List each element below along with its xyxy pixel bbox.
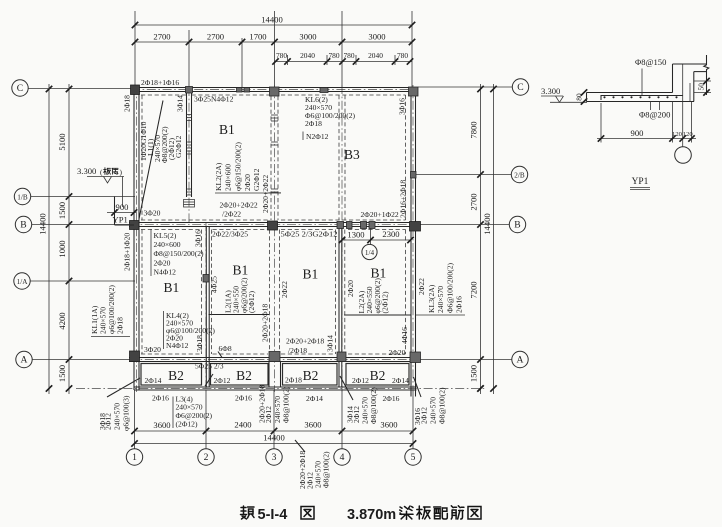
- svg-text:120: 120: [683, 131, 694, 138]
- grid bubble B left: [15, 216, 31, 232]
- svg-text:1500: 1500: [57, 365, 67, 382]
- bottom dimension line 3600/2400/3600/3600: [135, 430, 414, 432]
- svg-text:2Φ20+2Φ18: 2Φ20+2Φ18: [261, 304, 270, 342]
- svg-text:14400: 14400: [482, 213, 492, 234]
- dimension line row 2: 2700 2700 1700 3000 3000: [135, 41, 412, 43]
- svg-text:2Φ18+1Φ20: 2Φ18+1Φ20: [123, 233, 132, 271]
- dimension line 14400 (top row 1): [135, 24, 412, 26]
- dashed slab edges flanking grid 4 lower: [335, 230, 337, 355]
- grid line B connector right: [421, 224, 510, 226]
- dimension 1300 at B: [341, 231, 343, 243]
- beam L-2 along grid 2 vertical (B to bottom): [205, 227, 207, 388]
- dimension line row 3: 780 2040 780 780 2040 780: [275, 61, 413, 63]
- beam note KL5(2): [150, 229, 152, 276]
- bottom extension line grid 4: [341, 390, 343, 449]
- leader near grid 3 bottom note: [295, 440, 305, 452]
- leader to 2-14 slab bar (bottom left): [107, 378, 140, 397]
- svg-text:G2Φ12: G2Φ12: [252, 168, 261, 191]
- right inner dimension line (7800/2700/7200/1500): [480, 84, 482, 394]
- svg-text:240×600: 240×600: [224, 164, 233, 191]
- svg-text:780: 780: [343, 51, 354, 60]
- beam end detail box of L1(1): [184, 200, 195, 208]
- svg-text:2Φ16: 2Φ16: [152, 394, 169, 403]
- svg-text:2Φ16: 2Φ16: [235, 394, 252, 403]
- beam along grid 4 vertical (B to bottom): [338, 227, 340, 388]
- title fake glyph 图: [301, 507, 314, 520]
- centre line grid 1 vertical: [136, 85, 138, 392]
- svg-text:2: 2: [204, 452, 209, 463]
- svg-text:3Φ16: 3Φ16: [194, 230, 203, 247]
- svg-text:2700: 2700: [469, 193, 479, 210]
- centre line grid 2 vertical (lower): [205, 222, 207, 392]
- svg-text:2Φ12: 2Φ12: [214, 376, 231, 385]
- svg-text:1000: 1000: [57, 240, 67, 257]
- beam note KL4(2): [163, 311, 165, 349]
- detail distribution bars 8@200: [650, 102, 652, 111]
- svg-text:2Φ20+2Φ22: 2Φ20+2Φ22: [261, 175, 270, 213]
- svg-text:3600: 3600: [304, 420, 321, 430]
- svg-text:Φ8@100(2): Φ8@100(2): [438, 387, 447, 424]
- grid line C connector right: [418, 86, 512, 88]
- detail wall break line: [704, 55, 709, 95]
- centre line grid 4 vertical: [341, 85, 343, 392]
- grid line B connector left: [32, 224, 131, 226]
- svg-text:(: (: [100, 168, 103, 177]
- leader from level mark: [122, 177, 124, 208]
- svg-text:2Φ18: 2Φ18: [116, 317, 125, 334]
- svg-text:1/A: 1/A: [17, 278, 29, 286]
- svg-text:A: A: [21, 355, 28, 366]
- slab panel outline B2 bay 3-4: [283, 364, 338, 386]
- grid bubble 5 bottom: [405, 449, 421, 465]
- centre line grid A horizontal: [129, 359, 421, 361]
- title fake glyph 题: [241, 507, 246, 509]
- svg-text:3Φ25N4Φ12: 3Φ25N4Φ12: [194, 95, 234, 104]
- top dimension extension line grid 3: [274, 11, 276, 87]
- svg-text:B1: B1: [164, 280, 180, 295]
- column 1/A on grid 2: [203, 275, 209, 283]
- svg-text:Φ8@200: Φ8@200: [639, 110, 670, 120]
- post marks on beam B near grid 4: [337, 222, 344, 229]
- slab panel outline B2 bay 4-5: [346, 364, 409, 386]
- svg-text:B1: B1: [303, 267, 319, 282]
- svg-text:2Φ20: 2Φ20: [389, 348, 406, 357]
- stirrup marks on grid 3 strip: [271, 114, 278, 116]
- svg-text:1/B: 1/B: [17, 193, 28, 201]
- column C/3: [270, 87, 280, 96]
- svg-text:2700: 2700: [153, 32, 170, 42]
- leader at B2 bay3 to rebar note: [340, 376, 353, 400]
- svg-text:2Φ16+2Φ18: 2Φ16+2Φ18: [399, 180, 408, 218]
- svg-text:2Φ20+2Φ22: 2Φ20+2Φ22: [220, 201, 258, 210]
- beam KL5/KL... along grid B: [129, 222, 421, 224]
- beam at grid 3 in B2 strip: [268, 362, 270, 388]
- svg-text:B1: B1: [233, 263, 249, 278]
- column A/5: [410, 352, 421, 363]
- centre line bottom edge horizontal: [76, 388, 485, 390]
- grid bubble C left: [12, 80, 28, 96]
- grid bubble 1/A left: [14, 273, 30, 289]
- svg-text:2Φ12: 2Φ12: [264, 406, 273, 423]
- dashed slab edge right of grid 1: [141, 95, 143, 220]
- svg-text:Φ8@100(2): Φ8@100(2): [369, 387, 378, 424]
- svg-text:900: 900: [631, 128, 644, 138]
- svg-text:N4Φ12: N4Φ12: [154, 268, 177, 277]
- beam KL3 along grid 5 vertical: [410, 88, 412, 397]
- svg-text:3600: 3600: [153, 420, 170, 430]
- svg-text:YP1: YP1: [113, 215, 128, 225]
- title fake glyph 图2: [468, 507, 481, 520]
- detail dimension line 900/120/120: [600, 103, 602, 143]
- svg-text:(2Φ12): (2Φ12): [247, 291, 256, 313]
- svg-text:A: A: [517, 355, 524, 366]
- beam L1(1) vertical at x=189: [186, 92, 188, 198]
- grid line 1/B: [31, 196, 135, 198]
- grid bubble A left: [16, 351, 32, 367]
- beam L2(1A) horizontal: [209, 314, 270, 316]
- svg-text:Φ8@100(2): Φ8@100(2): [322, 451, 331, 488]
- svg-text:/2Φ22: /2Φ22: [222, 210, 241, 219]
- svg-text:1500: 1500: [57, 202, 67, 219]
- left outer dimension line (14400): [48, 84, 50, 394]
- svg-text:3000: 3000: [368, 32, 385, 42]
- svg-text:1/4: 1/4: [365, 249, 375, 257]
- detail slab left edge: [586, 93, 588, 102]
- svg-text:C: C: [17, 83, 23, 94]
- svg-text:5-I-4: 5-I-4: [258, 507, 288, 523]
- bottom extension line grid 1: [134, 390, 136, 449]
- grid bubble B right: [509, 216, 525, 232]
- svg-text:2Φ14: 2Φ14: [392, 376, 409, 385]
- right outer dimension line (14400): [493, 84, 495, 394]
- leader 6-8: [218, 352, 222, 358]
- svg-text:50: 50: [697, 83, 706, 91]
- dashed beam strip grid 4 upper: [338, 95, 340, 220]
- slab panel outline B2 bay 2-3: [211, 364, 269, 386]
- svg-text:2Φ18: 2Φ18: [285, 376, 302, 385]
- post mark on beam C at L1 top: [186, 87, 193, 94]
- svg-text:(2Φ12): (2Φ12): [381, 291, 390, 313]
- svg-text:2Φ20: 2Φ20: [243, 174, 252, 191]
- detail beam left face: [672, 64, 674, 93]
- svg-text:4Φ16: 4Φ16: [400, 327, 409, 344]
- svg-text:2Φ14: 2Φ14: [145, 376, 162, 385]
- svg-text:KL5(2): KL5(2): [154, 231, 177, 240]
- svg-text:Φ6@100/200(2): Φ6@100/200(2): [446, 262, 455, 313]
- title fake glyph 筋: [451, 506, 453, 508]
- stirrup marks on L1(1) beam: [187, 114, 192, 116]
- svg-text:3.870m: 3.870m: [347, 507, 396, 523]
- svg-text:N4Φ12: N4Φ12: [166, 341, 189, 350]
- bottom extension line grid 5: [412, 390, 414, 449]
- svg-text:14400: 14400: [263, 433, 284, 443]
- svg-text:2Φ18: 2Φ18: [305, 119, 322, 128]
- top dimension extension line grid 4: [341, 11, 343, 87]
- svg-text:1300: 1300: [347, 230, 364, 240]
- svg-text:2/B: 2/B: [514, 171, 525, 179]
- grid bubble A right: [512, 351, 528, 367]
- svg-text:2Φ22/3Φ25: 2Φ22/3Φ25: [212, 230, 248, 239]
- svg-text:4Φ25: 4Φ25: [210, 276, 219, 293]
- dashed slab edge above grid B: [141, 219, 268, 221]
- detail slab top: [587, 92, 673, 94]
- bottom dimension line 14400: [135, 443, 414, 445]
- svg-text:KL2(2A): KL2(2A): [214, 162, 223, 191]
- svg-text:3Φ14: 3Φ14: [326, 335, 335, 352]
- column B/5: [410, 222, 421, 232]
- column B/1: [130, 221, 140, 230]
- centre line x=189 vertical: [188, 87, 190, 223]
- grid bubble 1/B left: [14, 188, 30, 204]
- svg-text:5Φ25 2/3G2Φ12: 5Φ25 2/3G2Φ12: [281, 230, 338, 239]
- svg-text:5100: 5100: [57, 133, 67, 150]
- svg-text:2Φ12: 2Φ12: [104, 413, 113, 430]
- svg-text:780: 780: [397, 51, 408, 60]
- detail step lines: [694, 71, 707, 73]
- svg-text:2Φ16: 2Φ16: [383, 394, 400, 403]
- svg-text:B2: B2: [168, 368, 184, 383]
- svg-text:2Φ20: 2Φ20: [346, 280, 355, 297]
- svg-text:6Φ8: 6Φ8: [219, 344, 232, 353]
- svg-text:2Φ22: 2Φ22: [417, 278, 426, 295]
- leader at B2 bay4 to rebar note: [414, 377, 422, 397]
- detail bubble: [675, 147, 692, 164]
- title fake glyph 配: [434, 506, 441, 508]
- dashed beam strip grid 3 upper: [270, 96, 272, 220]
- svg-text:240×570: 240×570: [113, 403, 122, 430]
- top dimension extension line grid 1: [134, 11, 136, 87]
- leader at B2 bay2 across grid 2: [205, 374, 213, 386]
- svg-text:4: 4: [340, 452, 345, 463]
- svg-text:(2Φ12): (2Φ12): [176, 420, 198, 429]
- svg-text:3Φ16: 3Φ16: [398, 98, 407, 115]
- column A/3: [269, 352, 280, 362]
- column B/3: [268, 221, 278, 230]
- column A/1: [130, 351, 140, 362]
- grid bubble 2/B right: [511, 166, 527, 182]
- svg-text:900: 900: [116, 202, 129, 212]
- svg-text:2Φ22: 2Φ22: [280, 281, 289, 298]
- svg-text:2040: 2040: [368, 51, 383, 60]
- svg-text:780: 780: [328, 51, 339, 60]
- svg-text:Φ8@150/200(2): Φ8@150/200(2): [154, 249, 205, 258]
- left inner dimension line (5100/1500/1000/4200/1500): [68, 84, 70, 394]
- svg-text:7800: 7800: [469, 121, 479, 138]
- dashed slab edges flanking grid 3 lower: [269, 230, 271, 355]
- canopy YP outline: [114, 197, 116, 226]
- dashed slab edge below grid C: [141, 94, 187, 96]
- svg-text:3Φ18: 3Φ18: [195, 335, 204, 352]
- grid bubble C right: [512, 79, 528, 95]
- beam KL4/L3 along grid A: [129, 357, 421, 359]
- svg-text:2Φ12: 2Φ12: [420, 407, 429, 424]
- svg-text:2Φ20+1Φ22: 2Φ20+1Φ22: [361, 210, 399, 219]
- svg-text:B: B: [514, 220, 520, 231]
- leader to 3-25N4-12: [139, 101, 163, 220]
- svg-text:2700: 2700: [207, 32, 224, 42]
- detail beam top: [673, 63, 708, 65]
- top dimension extension line x=242: [241, 38, 243, 87]
- svg-text:3: 3: [272, 452, 277, 463]
- svg-text:2Φ20: 2Φ20: [154, 259, 171, 268]
- post mark on beam C near x=242: [237, 88, 243, 93]
- svg-text:/2Φ18: /2Φ18: [288, 346, 307, 355]
- svg-text:3.300: 3.300: [541, 86, 560, 96]
- svg-text:2Φ18+1Φ16: 2Φ18+1Φ16: [141, 78, 179, 87]
- svg-text:Φ8@100(2): Φ8@100(2): [282, 386, 291, 423]
- svg-text:3Φ20: 3Φ20: [144, 209, 161, 218]
- column C/5: [409, 87, 419, 96]
- grid bubble 1 bottom: [126, 449, 142, 465]
- centre line grid C horizontal: [131, 89, 418, 91]
- svg-text:1700: 1700: [249, 32, 266, 42]
- slab panel outline B2 bay 1-2: [141, 364, 202, 386]
- dashed slab edge above grid A: [141, 353, 200, 355]
- svg-text:φ6@100(3): φ6@100(3): [122, 395, 131, 431]
- detail ground line: [550, 101, 587, 103]
- svg-text:2300: 2300: [382, 229, 399, 239]
- detail slab bottom: [587, 101, 695, 103]
- title fake glyph 梁: [400, 507, 402, 508]
- svg-text:5Φ25 2/3: 5Φ25 2/3: [195, 362, 224, 371]
- svg-text:240×570: 240×570: [436, 286, 445, 313]
- beam note L3(4): [172, 397, 174, 429]
- svg-text:240×600: 240×600: [154, 240, 181, 249]
- beam along bottom edge: [134, 386, 417, 388]
- grid bubble 4 bottom: [334, 449, 350, 465]
- detail beam centre rebar: [682, 64, 684, 147]
- grid bubble 1/4: [362, 244, 377, 259]
- column C/1: [131, 85, 140, 95]
- svg-text:2Φ16: 2Φ16: [455, 296, 464, 313]
- svg-text:14400: 14400: [38, 213, 48, 234]
- svg-text:YP1: YP1: [632, 177, 649, 187]
- svg-text:B1: B1: [219, 122, 235, 137]
- svg-text:3Φ20: 3Φ20: [144, 345, 161, 354]
- svg-text:5: 5: [411, 452, 416, 463]
- centre line grid 3 vertical: [274, 85, 276, 392]
- svg-text:B: B: [20, 220, 26, 231]
- svg-text:4200: 4200: [57, 312, 67, 329]
- grid line A connector right: [421, 359, 512, 361]
- dashed slab edges flanking grid 2 lower: [201, 230, 203, 355]
- svg-text:2Φ12: 2Φ12: [352, 376, 369, 385]
- svg-text:1500: 1500: [469, 365, 479, 382]
- detail dim 50: [694, 80, 711, 82]
- post mark on grid 5 beam at 2/B: [411, 172, 417, 179]
- svg-text:2040: 2040: [300, 51, 315, 60]
- beam L2(2A) horizontal: [344, 314, 411, 316]
- grid line 1/A: [30, 280, 135, 282]
- detail dim 80 (slab thickness): [581, 89, 587, 95]
- svg-text:2Φ20+2Φ18: 2Φ20+2Φ18: [286, 337, 324, 346]
- top dimension extension line grid 5: [411, 11, 413, 87]
- svg-text:3000: 3000: [299, 32, 316, 42]
- grid line A connector left: [32, 359, 131, 361]
- svg-text:3Φ14: 3Φ14: [176, 95, 185, 112]
- column A/4: [337, 352, 346, 362]
- dashed slab edge left of grid 5: [405, 95, 407, 220]
- svg-text:1: 1: [132, 452, 137, 463]
- svg-text:Φ8@150: Φ8@150: [635, 57, 666, 67]
- svg-text:C: C: [517, 82, 523, 93]
- svg-text:B3: B3: [344, 147, 360, 162]
- grid line C connector left: [28, 88, 131, 90]
- svg-text:7200: 7200: [469, 281, 479, 298]
- svg-text:780: 780: [276, 51, 287, 60]
- svg-text:80: 80: [575, 93, 584, 101]
- svg-text:B2: B2: [303, 368, 319, 383]
- svg-text:B2: B2: [370, 368, 386, 383]
- bottom extension line grid 3: [273, 390, 275, 449]
- beam KL6(2) along grid C: [131, 87, 418, 89]
- centre line grid B horizontal: [129, 224, 421, 226]
- detail slab main rebar: [601, 96, 683, 101]
- dimension 900 canopy: [107, 212, 136, 214]
- title fake glyph 板: [418, 506, 420, 519]
- svg-text:2400: 2400: [234, 420, 251, 430]
- svg-text:2Φ18: 2Φ18: [123, 95, 132, 112]
- top dimension extension line x=189: [188, 30, 190, 87]
- svg-text:): ): [120, 168, 123, 177]
- svg-text:B2: B2: [236, 368, 252, 383]
- svg-text:KL3(2A): KL3(2A): [427, 284, 436, 313]
- svg-text:2Φ14: 2Φ14: [306, 394, 323, 403]
- svg-text:N2Φ12: N2Φ12: [306, 132, 329, 141]
- grid bubble 3 bottom: [266, 449, 282, 465]
- svg-text:3600: 3600: [380, 420, 397, 430]
- svg-text:14400: 14400: [261, 15, 282, 25]
- dashed slab edge below grid B: [141, 229, 200, 231]
- svg-text:G2Φ12: G2Φ12: [174, 135, 183, 158]
- beam KL1 along grid 1 vertical: [133, 88, 135, 391]
- svg-text:3.300: 3.300: [77, 166, 96, 176]
- svg-text:120: 120: [672, 131, 683, 138]
- grid line 2/B connector right: [416, 174, 512, 176]
- centre line grid 5 vertical: [412, 85, 414, 392]
- svg-text:φ6@150/200(2): φ6@150/200(2): [234, 142, 243, 191]
- post mark on beam C at x=324: [320, 88, 328, 93]
- bottom extension line grid 2: [205, 390, 207, 449]
- grid bubble 2 bottom: [198, 449, 214, 465]
- svg-text:240×570: 240×570: [429, 397, 438, 424]
